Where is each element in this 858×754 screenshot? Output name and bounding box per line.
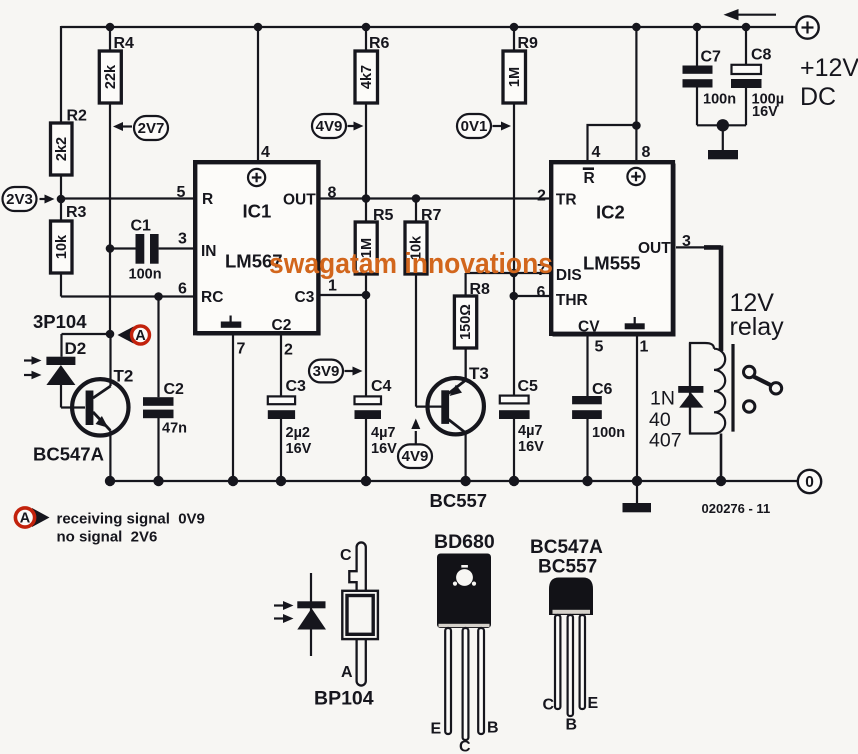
node OUT line R5 (362, 194, 371, 203)
node 4V9 oval top (312, 114, 364, 138)
node rail C2 (153, 476, 163, 486)
svg-text:OUT: OUT (283, 192, 316, 209)
node rail C5 (509, 476, 519, 486)
node 3V9 oval (309, 360, 363, 383)
svg-text:4k7: 4k7 (359, 65, 375, 89)
marker legend A (15, 508, 49, 527)
node C1 left junction (106, 244, 115, 253)
pinout BP104 photodiode symbol (297, 573, 326, 656)
node top rail R9 (510, 23, 519, 32)
resistor R6 (355, 35, 390, 103)
svg-text:4V9: 4V9 (316, 118, 343, 135)
svg-text:B: B (566, 717, 578, 734)
IC1 plus symbol (248, 169, 265, 186)
svg-text:16V: 16V (371, 441, 397, 457)
node 0V1 oval (457, 114, 511, 138)
svg-text:407: 407 (649, 430, 682, 452)
wire C5 bottom (513, 419, 515, 481)
node rail C3 (276, 476, 286, 486)
node DIS junction (510, 269, 519, 278)
svg-text:CV: CV (578, 319, 600, 336)
terminal 0 (798, 470, 821, 493)
wire R line to IC1 pin 5 (61, 197, 195, 199)
svg-text:R: R (202, 191, 213, 208)
svg-text:1N: 1N (650, 388, 675, 410)
ground symbol supply filter (708, 150, 738, 159)
svg-text:C: C (543, 697, 555, 714)
wire R8 top lead (465, 273, 467, 296)
wire IC2 pin 5 to C6 (586, 335, 588, 481)
svg-text:8: 8 (328, 185, 337, 202)
svg-text:8: 8 (642, 144, 651, 161)
svg-text:C1: C1 (131, 218, 152, 235)
svg-text:4µ7: 4µ7 (518, 423, 542, 439)
svg-text:R7: R7 (421, 207, 442, 224)
node top rail C8 (742, 23, 751, 32)
svg-text:4: 4 (592, 144, 601, 161)
svg-text:100n: 100n (129, 267, 162, 283)
svg-text:020276 - 11: 020276 - 11 (702, 501, 771, 516)
capacitor C6 (572, 381, 625, 441)
wire C1 left lead (110, 247, 136, 249)
node IC1 pin 4 on rail (254, 23, 263, 32)
pinout BP104 light arrows (274, 601, 294, 623)
capacitor C4 electrolytic (355, 378, 398, 457)
node rail relay (716, 476, 726, 486)
svg-text:C3: C3 (286, 378, 307, 395)
capacitor C7 (683, 49, 737, 108)
svg-text:T2: T2 (114, 367, 134, 386)
label circuit number (702, 501, 771, 516)
svg-text:TR: TR (556, 192, 577, 209)
svg-text:R4: R4 (114, 35, 135, 52)
wire IC1 pin 1 C3 line (319, 294, 366, 296)
svg-text:16V: 16V (286, 441, 312, 457)
svg-text:6: 6 (537, 284, 546, 301)
resistor R2 (51, 108, 88, 176)
photodiode D2 BP104 (33, 311, 87, 408)
label 12V relay (730, 289, 785, 341)
svg-text:1: 1 (328, 278, 337, 295)
svg-text:DIS: DIS (556, 267, 582, 284)
svg-text:2: 2 (537, 188, 546, 205)
svg-text:D2: D2 (65, 339, 87, 358)
svg-text:E: E (588, 695, 599, 712)
relay core bar (731, 344, 734, 432)
svg-text:IC2: IC2 (596, 202, 625, 223)
svg-text:T3: T3 (469, 364, 489, 383)
svg-text:R: R (584, 170, 595, 187)
marker node A in circuit (118, 326, 150, 344)
svg-text:B: B (487, 720, 499, 737)
IC2 pin numbers (537, 144, 692, 356)
relay coil outline (690, 343, 725, 434)
svg-text:C7: C7 (701, 49, 722, 66)
svg-text:RC: RC (201, 289, 223, 306)
wire R7 vertical to T3 base (416, 199, 443, 407)
svg-text:3V9: 3V9 (313, 363, 340, 380)
svg-text:R2: R2 (67, 108, 88, 125)
wire C7 branch (696, 27, 698, 125)
svg-text:no signal 2V6: no signal 2V6 (57, 529, 158, 546)
wire ground rail (110, 480, 798, 482)
wire R3 bottom to RC line (60, 273, 62, 297)
svg-text:DC: DC (800, 83, 836, 111)
wire DIS line (466, 272, 550, 274)
relay contacts (744, 366, 782, 412)
pinout BC547A BC557 package (530, 537, 603, 615)
node THR junction (510, 292, 519, 301)
wire C1 right lead to IC1 pin 3 (159, 247, 195, 249)
svg-text:IN: IN (201, 243, 217, 260)
svg-text:6: 6 (178, 281, 187, 298)
svg-text:7: 7 (237, 341, 246, 358)
wire IC2 pin 1 to ground (636, 335, 638, 503)
svg-text:C2: C2 (164, 381, 185, 398)
light arrows into D2 (24, 356, 42, 379)
svg-text:BP104: BP104 (314, 688, 374, 710)
wire R4 vertical (109, 27, 111, 334)
svg-text:150Ω: 150Ω (458, 304, 474, 340)
svg-text:16V: 16V (518, 439, 544, 455)
svg-text:1M: 1M (507, 67, 523, 87)
svg-text:receiving signal 0V9: receiving signal 0V9 (57, 511, 205, 528)
svg-text:+12V: +12V (800, 54, 858, 82)
resistor R3 (51, 204, 87, 273)
svg-text:C: C (340, 547, 352, 564)
wire R9 vertical down to C5 (513, 27, 515, 396)
wire IC2 pin 4 with jog (588, 125, 637, 161)
capacitor C2 (143, 381, 187, 437)
svg-text:2V7: 2V7 (138, 120, 165, 137)
arrow supply direction (724, 9, 777, 20)
svg-text:OUT: OUT (638, 240, 671, 257)
op-amp U2 IC2 LM555 box (551, 162, 675, 336)
svg-text:swagatam innovations: swagatam innovations (269, 248, 553, 280)
IC2 internal ground pin (625, 317, 645, 329)
pinout BD680 package (434, 531, 495, 628)
capacitor C8 electrolytic (731, 47, 784, 121)
node top rail R6 (362, 23, 371, 32)
node pin1 line meets R5 (362, 291, 371, 300)
svg-text:BC557: BC557 (430, 490, 488, 511)
resistor R5 (355, 207, 393, 274)
wire RC line to IC1 pin 6 (61, 295, 195, 297)
svg-text:BC547A: BC547A (530, 537, 603, 558)
resistor R9 (503, 35, 538, 103)
capacitor C1 (129, 218, 162, 283)
transistor Q2 T2 BC547A (33, 334, 133, 481)
wire R8 bottom to T3 emitter (465, 348, 467, 381)
IC1 internal labels (201, 191, 316, 334)
op-amp U1 IC1 LM567 box (195, 162, 320, 335)
svg-text:R6: R6 (369, 35, 390, 52)
node C7 C8 junction (717, 119, 729, 131)
node rail IC1 pin7 (228, 476, 238, 486)
node rail C6 (582, 476, 592, 486)
node rail T2 emitter (105, 476, 115, 486)
wire IC1 pin 7 to rail (232, 334, 234, 481)
svg-text:5: 5 (595, 339, 604, 356)
svg-text:2V3: 2V3 (6, 191, 33, 208)
wire THR line (514, 295, 550, 297)
svg-text:C3: C3 (295, 289, 315, 306)
pinout BC547 pin labels (543, 695, 599, 734)
svg-text:47n: 47n (162, 421, 187, 437)
wire IC1 OUT to IC2 TR (319, 197, 550, 199)
svg-text:C8: C8 (751, 47, 772, 64)
wire IC1 pin 2 to C3 (280, 334, 282, 481)
node top rail R4 (106, 23, 115, 32)
svg-text:40: 40 (649, 409, 671, 431)
svg-text:LM555: LM555 (583, 253, 641, 274)
resistor R7 (405, 207, 442, 274)
svg-text:100n: 100n (592, 425, 625, 441)
ground symbol IC2 pin1 (623, 503, 652, 512)
svg-text:C6: C6 (592, 381, 613, 398)
pinout BC547 legs (555, 615, 585, 716)
IC1 internal ground pin (221, 316, 242, 328)
capacitor C5 electrolytic (499, 378, 544, 455)
svg-text:1: 1 (640, 339, 649, 356)
node 2V7 oval (113, 116, 168, 140)
wire R5 vertical (365, 199, 367, 397)
svg-text:R5: R5 (373, 207, 394, 224)
svg-text:A: A (20, 511, 31, 527)
svg-text:A: A (341, 664, 353, 681)
terminal +12V (796, 16, 818, 38)
node rail T3 collector (460, 476, 470, 486)
wire IC2 OUT pin 3 (676, 246, 721, 352)
pinout BD680 legs (445, 628, 484, 740)
svg-text:R8: R8 (470, 281, 491, 298)
node RC line C2 junction (154, 292, 163, 301)
wire C2 branch (157, 297, 159, 482)
svg-text:C: C (459, 739, 471, 754)
node R2-R3 junction 2V3 (57, 175, 66, 221)
pinout BP104 package (314, 542, 378, 709)
node A junction (106, 330, 115, 339)
svg-text:THR: THR (556, 292, 588, 309)
node rail C4 (361, 476, 371, 486)
wire relay to rail (720, 434, 723, 482)
wire top supply rail (61, 26, 796, 28)
transistor Q3 T3 BC557 (428, 348, 489, 511)
svg-text:A: A (135, 328, 146, 344)
svg-text:100n: 100n (703, 92, 736, 108)
wire R6 vertical (365, 27, 367, 199)
svg-text:C5: C5 (518, 378, 539, 395)
svg-text:BC557: BC557 (538, 557, 597, 578)
node OUT line R7 (412, 194, 421, 203)
svg-text:C4: C4 (371, 378, 392, 395)
node top rail C7 (693, 23, 702, 32)
svg-text:2µ2: 2µ2 (286, 425, 310, 441)
svg-text:BC547A: BC547A (33, 444, 104, 465)
IC2 plus symbol (627, 168, 644, 185)
label +12V DC (800, 54, 858, 111)
svg-text:R3: R3 (66, 204, 87, 221)
svg-text:R9: R9 (518, 35, 539, 52)
capacitor C3 electrolytic (268, 378, 312, 457)
svg-text:4V9: 4V9 (402, 448, 429, 465)
IC2 internal labels (556, 169, 671, 336)
svg-text:3P104: 3P104 (33, 311, 87, 332)
resistor R4 (99, 35, 134, 103)
svg-text:IC1: IC1 (243, 201, 272, 222)
svg-text:E: E (431, 721, 442, 738)
svg-text:C2: C2 (272, 317, 292, 334)
svg-text:4µ7: 4µ7 (371, 425, 395, 441)
svg-text:0: 0 (805, 474, 814, 491)
wire A node horizontal (62, 333, 111, 335)
wire IC2 pin 8 vertical (635, 27, 637, 161)
svg-text:2k2: 2k2 (54, 137, 70, 161)
svg-text:10k: 10k (54, 234, 70, 259)
wire C4 bottom (365, 419, 367, 481)
wire IC1 pin 4 (257, 27, 259, 161)
legend text (57, 511, 205, 546)
node 4V9 oval bottom (398, 419, 432, 469)
IC1 pin numbers (177, 144, 338, 359)
wire left branch down to R2 (60, 26, 62, 123)
svg-text:3: 3 (178, 231, 187, 248)
svg-text:2: 2 (284, 342, 293, 359)
node rail IC2 pin1 (632, 476, 642, 486)
node 2V3 oval (3, 187, 55, 211)
diode D relay 1N4007 (649, 343, 703, 452)
node pin4 jog junction (632, 121, 641, 130)
node IC2 pin 8 on rail (632, 23, 641, 32)
svg-text:BD680: BD680 (434, 531, 495, 553)
wire C8 branch (745, 27, 747, 125)
svg-text:5: 5 (177, 184, 186, 201)
svg-text:0V1: 0V1 (461, 118, 488, 135)
svg-text:16V: 16V (752, 104, 778, 120)
svg-text:22k: 22k (103, 64, 119, 89)
wire C7 C8 common to ground (697, 125, 746, 150)
svg-text:4: 4 (261, 144, 270, 161)
pinout BD680 pin labels (431, 720, 499, 754)
resistor R8 (454, 281, 490, 348)
watermark (269, 248, 553, 280)
svg-text:relay: relay (730, 313, 785, 341)
